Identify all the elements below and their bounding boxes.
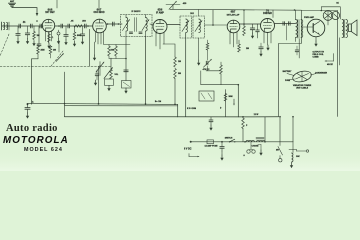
capacitor C14 [16,26,20,39]
svg-text:3M: 3M [178,73,181,75]
svg-text:CHOKE: CHOKE [252,146,260,148]
label 6vdc [184,149,192,151]
speaker SP1 [349,20,358,36]
model number label [24,147,63,153]
svg-text:6 V DC: 6 V DC [184,149,192,151]
IF1 core [135,18,137,32]
electrolytic C17 [57,30,60,39]
coil L5 IF2b [199,19,201,33]
svg-text:2M: 2M [53,50,56,52]
IF2a trim arrow [182,21,189,32]
node ant input [36,20,38,22]
wire IF1 leads [126,15,146,37]
wire vert osc gang [89,29,91,66]
wire screen rail [104,44,130,46]
label R7 [41,50,45,52]
pilot lamps [247,142,255,153]
wire vert x225 [225,90,227,117]
ground V5 cathode [266,45,269,51]
pin V5-1 [263,32,265,43]
wire top rail B+ [170,8,301,11]
capacitor C26 [295,46,299,55]
node bus64 [64,103,66,105]
wire avc riser [243,9,245,24]
wire V2 plate to IF1 [106,23,122,25]
svg-text:BATTERY: BATTERY [283,70,292,73]
tube V5 76 driver [261,19,275,33]
speaker field arrow [325,54,334,62]
tube V3 6D6 IF amp [153,20,167,34]
wire R18 down [242,129,244,142]
ground L8 [290,163,293,169]
wire T4 sec down [298,39,300,58]
IF2b can box [193,16,205,38]
arrow x234 [233,99,235,105]
node a-lead [221,141,223,143]
wire V6 top rail [321,7,340,19]
wire IF1 out [150,23,153,26]
ground C18 [64,40,67,46]
capacitor C6 [85,24,87,28]
wire V5 plate [275,23,296,25]
terminal A lead [190,141,192,143]
label fuse f1 [204,144,218,147]
wire A lead [191,141,293,143]
capacitor C18 [64,26,68,40]
power unit box [279,11,338,117]
svg-text:UNIT CABLE: UNIT CABLE [296,87,309,90]
trimmer T1 425kc [166,1,180,9]
svg-text:COMB: COMB [313,57,320,59]
tone box [122,81,132,89]
svg-text:B+ 1M: B+ 1M [155,101,161,103]
IF2a can box [180,16,192,38]
wire bus parallel [65,105,178,107]
wire to V4 grid [213,24,227,26]
svg-text:6D6: 6D6 [158,8,163,12]
node det out [243,23,245,25]
choke L6 [246,140,254,141]
wire vert x220 [220,62,222,65]
wire V2 cathode [94,42,96,55]
transformer T4 interstage [296,20,303,39]
resistor R18 [242,118,245,129]
IF1 trim arrow 1 [123,20,130,31]
wire gnd stub [258,145,261,151]
gang dashed diag left [0,34,9,56]
capacitor C25 [220,142,224,151]
wire U1 base [303,26,313,28]
tube V6 rectifier [323,11,333,21]
svg-text:PWR AMP: PWR AMP [304,16,315,19]
svg-text:50M: 50M [111,50,115,52]
node bus293 [292,116,294,118]
pin V2-4 [103,31,105,44]
resistor R17 [224,94,227,102]
wire B bus lower [65,72,279,117]
label V1 line1 [48,7,53,11]
label V4 line2 [227,13,240,16]
trimmer T6 470kc [204,59,212,67]
pin V2-1 [95,32,97,42]
svg-text:IF 262KC: IF 262KC [132,11,141,13]
transformer T5 output [342,20,348,38]
switch SW2 blade [229,139,236,142]
node bus b [87,25,89,27]
svg-text:12 W: 12 W [254,114,259,116]
pin V3-3 [163,33,165,44]
label V2 line1 [97,7,102,11]
capacitor C11 [256,24,260,38]
wire v3 screen [163,44,175,57]
resistor R10 [108,45,111,57]
title Auto radio [6,123,58,134]
resistor R3 [243,26,246,36]
pin V5-2 [267,32,269,45]
switch SW1 box [105,79,114,85]
wire c25 stub [221,151,223,155]
resistor R4 [33,26,36,40]
coil L1 antenna [2,22,10,30]
svg-text:6A8: 6A8 [48,7,53,11]
pin V2-3 [100,33,102,45]
label trimmer [183,2,187,5]
svg-text:DET-AVC-AF: DET-AVC-AF [227,13,240,16]
label field coil 2 [313,54,325,56]
label cable 2 [296,87,309,90]
node rail2 [321,10,323,12]
label R16 [246,48,249,50]
label R18 [246,125,248,127]
label choke [252,146,260,148]
ground C10 [251,33,254,39]
ground R6 [73,41,76,47]
node bus c [107,23,109,25]
svg-text:25M: 25M [41,50,45,52]
label 4B2K [327,63,333,66]
switch SW3 knob [279,159,282,162]
ground C19 [81,39,84,45]
pin V3-2 [159,34,161,50]
label B+ [155,101,161,103]
ground V2 cathode [93,55,96,61]
label V4 line1 [231,10,236,14]
wire antenna lead [12,8,37,14]
terminal circle [306,150,308,152]
gang dashed diag mid [51,51,63,66]
antenna lead arrow [36,13,39,16]
pin V4-1 [229,32,231,44]
wire c13 drop [286,24,288,41]
resistor R5 [48,32,51,42]
ground lamps [259,150,262,156]
resistor R16 [238,40,241,52]
coil L8 [292,153,294,162]
wire plug leads [287,74,316,81]
wire vert vol [110,58,112,70]
capacitor C10 [250,24,254,33]
ground C20 [94,80,97,86]
capacitor C8 in IF1 [129,32,132,33]
pin V4-3 [236,32,238,44]
battery cable plug [292,69,313,83]
label R13 [178,73,181,75]
wire elbow left [200,71,202,85]
label R12 [178,61,181,63]
label r4 [37,35,40,37]
node x175 bus [174,104,176,106]
wire V1 label stub [56,0,58,8]
capacitor C24 [25,104,30,113]
wire vert x126 [125,37,127,81]
svg-text:1M: 1M [37,35,40,37]
wire vert x238 [237,85,239,117]
label R10 [111,50,115,52]
label IF1 [132,11,141,13]
capacitor C2 [31,24,33,28]
tube V2 6A7 osc-mod [93,19,107,33]
label lamps [243,154,245,157]
ground U1 [314,41,317,47]
tube V6b rectifier 2nd [332,12,340,20]
capacitor C16 [37,44,41,46]
ground C27 [209,125,212,131]
wire T5 return [339,38,341,65]
IF1 can box [121,15,153,37]
label 470kc [203,68,210,71]
wire drop x280 [279,117,281,142]
node choke r [264,141,266,143]
tuning arrow osc [56,54,64,62]
label antenna [10,0,15,3]
capacitor C12 [283,22,285,26]
resistor R12 [174,57,177,67]
node choke l [244,141,246,143]
wire R10R11 join [109,56,126,59]
wire v5 riser [272,10,274,18]
wire trim down [206,66,221,71]
ground R5 [47,43,50,49]
node vc1 [99,65,101,67]
ground tone box [124,88,127,94]
capacitor C13 [289,22,291,26]
wire T4 pri leads [295,10,297,42]
wire V6 bottom [327,20,329,25]
label R8 [53,50,56,52]
pin V1-1 [45,31,47,41]
label R17 [229,96,233,98]
capacitor C19 [80,26,84,39]
label C1 value [23,21,26,24]
fuse F1 [207,140,214,144]
label sw2 [225,138,233,140]
pin V3-1 [155,33,157,46]
output device U1 [307,19,325,37]
label V5 line2 [263,13,272,15]
capacitor C21 [124,70,128,72]
label field coil 1 [313,52,325,54]
svg-text:14 AMP FUSE: 14 AMP FUSE [204,144,218,147]
label condenser [315,73,328,75]
wire bracket [32,59,39,104]
label cable 1 [293,84,312,87]
tube V4 6B7 det-avc-af [227,20,240,33]
wire drop x293 [292,117,294,142]
wire hz y84 [201,74,239,85]
wire trimmer stub [172,5,174,10]
vibrator unit box [199,91,214,101]
pin V1-3 [51,31,53,41]
resistor R11 [115,45,118,57]
capacitor C15 [25,26,29,39]
antenna [9,3,16,7]
node x238 [238,84,240,86]
coil L2 IF1 primary [126,18,128,32]
label V3 line2 [156,11,164,14]
label C6 [82,21,86,23]
label vol [115,74,120,76]
pin V1-2 [48,32,50,43]
pin V2-2 [97,33,99,45]
svg-text:FUSE: FUSE [285,80,291,82]
ground C23 [259,51,262,57]
wire input bus [2,25,43,27]
svg-text:SW: SW [276,150,279,152]
capacitor C27 [209,117,213,125]
ground C14 [16,39,19,45]
resistor R14 [206,40,209,60]
capacitor C1 [19,24,21,28]
IF2b trim arrow [195,21,202,32]
node bus d [118,23,120,25]
svg-text:SWITCH: SWITCH [225,138,233,140]
resistor R7 [37,46,40,54]
svg-text:DRIVER: DRIVER [263,13,272,15]
node bus280 [279,116,281,118]
node IF2 out [212,24,214,26]
wire vert x198 [198,38,200,60]
node bus243 [242,116,244,118]
resistor R8 [49,45,52,58]
capacitor C7 [113,22,115,26]
wire B bus upper [27,103,178,104]
ground R4 [32,41,35,47]
gang dashed link [0,65,112,67]
node rail T4 [294,9,296,11]
label V6 [336,2,339,5]
ground SW1 [107,86,110,92]
label vib d [220,108,222,110]
wire vert x175 bot [174,79,176,105]
vibrator T lead [289,142,297,153]
wire IF2 out [205,10,214,25]
ground C25 [220,155,223,161]
wire vert x39 upper [38,26,40,44]
wire V1 to V2 grid [55,25,93,27]
label r6 [77,35,81,37]
label coil l8 [296,156,300,158]
svg-text:1ST DET: 1ST DET [45,12,55,14]
pin V4-2 [233,33,235,47]
svg-text:4B 2K: 4B 2K [327,63,333,66]
svg-text:OSC MOD: OSC MOD [94,12,105,14]
wire R7 leads [37,44,39,59]
label V2 line2 [94,12,105,14]
label battery [283,70,292,73]
resistor R13 [174,69,177,79]
wire vert x145 [145,37,147,105]
svg-text:6B7: 6B7 [231,10,236,14]
tuning cap VC1 [96,62,104,76]
svg-text:470 KC: 470 KC [203,68,210,71]
node x145 bus [145,103,147,105]
brand MOTOROLA logo [3,135,69,146]
label U1 [304,16,315,19]
resistor R6 [73,26,76,40]
wire to terminal [297,150,307,152]
wire vert x185 [185,33,187,117]
volume pot R9 [104,68,113,80]
capacitor C4 [61,24,63,28]
wire IF2b stub [198,10,200,16]
label 12w [254,114,259,116]
node x126 [125,58,127,60]
coil L3 IF1 secondary [146,18,148,32]
ground x198 [197,60,200,66]
node bus98 [98,103,100,105]
wire V4 to V5 [240,23,261,25]
coil L4 IF2a [186,19,188,33]
arrow 6vdc [189,154,199,158]
label field coil 3 [313,57,320,59]
label V3 line1 [158,8,163,12]
capacitor C20 [95,70,99,80]
label A node [32,101,34,104]
svg-text:1M: 1M [178,61,181,63]
wire drop x265 [264,117,266,142]
label IF2 [190,13,194,15]
svg-text:CONDENSER: CONDENSER [315,73,328,75]
resistor R1 [74,25,82,27]
node bus27 [27,103,29,105]
capacitor C9 in IF1 [139,32,142,33]
svg-text:30M: 30M [229,96,233,98]
capacitor C23 [259,43,263,51]
resistor R15 [220,65,223,74]
label r5 [52,37,55,39]
label sw3 [276,150,279,152]
svg-text:50M: 50M [77,35,81,37]
capacitor C3 [40,24,42,28]
choke L7 iron [256,138,265,142]
label fuse [285,80,291,82]
wire vert gang gnd [98,66,100,104]
label R1 [71,21,75,23]
label V1 line2 [45,12,55,14]
node bus a [58,25,60,27]
wire V2 top stub [98,0,100,9]
svg-text:2M: 2M [246,48,249,50]
label V5 line1 [266,8,269,12]
wire vert x59 [58,41,60,53]
wire bus step [177,104,179,117]
wire V3 to IF2 [167,24,180,26]
wire U1 emitter down [315,37,317,41]
pin V5-3 [270,32,272,43]
capacitor C5 [68,24,70,28]
svg-text:5 X 0 20M: 5 X 0 20M [187,108,196,110]
svg-text:IF AMP: IF AMP [156,11,164,14]
